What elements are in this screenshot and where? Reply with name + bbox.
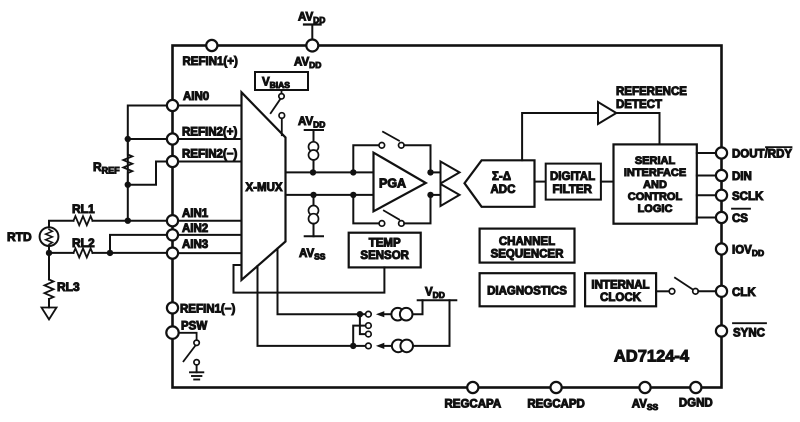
svg-text:REGCAPD: REGCAPD bbox=[527, 399, 585, 411]
svg-text:SENSOR: SENSOR bbox=[360, 250, 409, 262]
wire junction to AIN2 bbox=[110, 235, 168, 253]
wire X-MUX to IOUT top rail bbox=[278, 249, 358, 315]
svg-text:CONTROL: CONTROL bbox=[628, 191, 683, 203]
IOUT contact 4 bbox=[366, 343, 372, 349]
pin AIN1 bbox=[167, 215, 178, 226]
svg-text:INTERFACE: INTERFACE bbox=[624, 167, 686, 179]
VBIAS switch blade bbox=[271, 100, 280, 113]
wire IOUT1 to VDD bbox=[413, 300, 450, 346]
VDD bar bbox=[418, 299, 457, 301]
wire RL2 to AIN3 pin bbox=[93, 252, 168, 254]
svg-text:CLK: CLK bbox=[732, 287, 756, 299]
pin AVDD top bbox=[306, 40, 318, 52]
wire RL3 to ground bbox=[48, 299, 50, 308]
wire temp sensor to X-MUX bbox=[234, 265, 385, 293]
SERIAL INTERFACE AND CONTROL LOGIC box bbox=[614, 144, 697, 223]
current source AVDD (two circles) bbox=[309, 142, 319, 152]
VBIAS box bbox=[255, 72, 308, 90]
svg-text:DIAGNOSTICS: DIAGNOSTICS bbox=[487, 286, 567, 298]
node top bypass left bbox=[350, 169, 356, 175]
wire REFIN2(-) elbow bbox=[128, 162, 168, 185]
IOUT contact 2 bbox=[366, 323, 372, 329]
wire RTD to RL3 bbox=[48, 253, 50, 280]
node AIN1 junction bbox=[125, 218, 131, 224]
wire bottom bypass right bbox=[404, 195, 430, 224]
DIGITAL FILTER box bbox=[546, 164, 601, 200]
svg-text:SERIAL: SERIAL bbox=[635, 155, 676, 167]
resistor RL1 bbox=[74, 216, 93, 225]
svg-text:INTERNAL: INTERNAL bbox=[591, 280, 649, 292]
clock switch contact right bbox=[693, 289, 699, 295]
pin PSW bbox=[166, 326, 178, 338]
wire X-MUX to IOUT bottom rail bbox=[258, 266, 351, 346]
reference detect buffer bbox=[598, 102, 616, 124]
clock switch blade bbox=[675, 278, 693, 290]
svg-text:PSW: PSW bbox=[181, 321, 207, 333]
AVSS bar bbox=[305, 235, 323, 237]
X-MUX block bbox=[242, 92, 286, 280]
node top rail AVDD bbox=[310, 169, 316, 175]
svg-text:AIN3: AIN3 bbox=[182, 239, 208, 251]
top bypass blade bbox=[383, 132, 399, 141]
resistor RL2 bbox=[74, 248, 93, 257]
chip boundary AD7124-4 bbox=[173, 46, 722, 388]
wire detect to serial box bbox=[616, 113, 659, 144]
current source AVSS (two circles) bbox=[309, 206, 319, 216]
svg-text:AIN0: AIN0 bbox=[183, 91, 209, 103]
wire elbow top to contact 3 bbox=[360, 314, 366, 334]
svg-text:FILTER: FILTER bbox=[553, 184, 593, 196]
IOUT contact 3 bbox=[366, 331, 372, 337]
wire top bypass left riser bbox=[353, 145, 379, 172]
VBIAS switch contact top bbox=[279, 94, 284, 99]
svg-text:RTD: RTD bbox=[7, 230, 32, 244]
pin SYNC bbox=[716, 325, 727, 336]
svg-text:CLOCK: CLOCK bbox=[600, 292, 642, 304]
pin AIN2 bbox=[167, 229, 178, 240]
bottom bypass contact left bbox=[379, 221, 385, 227]
svg-text:RL2: RL2 bbox=[72, 236, 95, 250]
resistor RL3 bbox=[45, 280, 54, 300]
wire top rail to contact 1 bbox=[360, 313, 366, 315]
pin IOVDD bbox=[716, 243, 727, 254]
node RREF bottom junction bbox=[125, 182, 131, 188]
wire bottom bypass left riser bbox=[353, 195, 379, 224]
wire REFIN2(+) to X-MUX bbox=[178, 138, 241, 140]
resistor RREF bbox=[123, 139, 132, 185]
node RTD bottom junction bbox=[46, 250, 52, 256]
wire AIN0 external vertical bbox=[128, 106, 168, 221]
node RREF top junction bbox=[125, 136, 131, 142]
PSW switch blade bbox=[184, 346, 195, 361]
pin SCLK bbox=[716, 190, 727, 201]
PSW switch contact top bbox=[194, 340, 199, 345]
pin REFIN2(+) bbox=[167, 133, 178, 144]
svg-text:AVSS: AVSS bbox=[299, 248, 326, 262]
wire AIN2 to X-MUX bbox=[178, 234, 241, 236]
svg-text:CHANNEL: CHANNEL bbox=[499, 236, 555, 248]
svg-text:PGA: PGA bbox=[379, 177, 406, 191]
svg-text:AND: AND bbox=[643, 179, 667, 191]
bottom bypass contact right bbox=[399, 221, 405, 227]
svg-text:CS: CS bbox=[732, 213, 748, 225]
wire serial to DIN bbox=[697, 175, 716, 177]
svg-text:DOUT/RDY: DOUT/RDY bbox=[732, 149, 792, 161]
wire ADC to digital filter bbox=[535, 181, 546, 183]
wire RTD bottom to RL2 bbox=[49, 246, 74, 253]
buffer bottom bbox=[441, 184, 460, 206]
pin DOUT/RDY bbox=[716, 147, 727, 158]
AVDD supply stem bbox=[311, 25, 313, 40]
PSW switch contact bottom bbox=[194, 360, 199, 365]
svg-text:DETECT: DETECT bbox=[616, 99, 662, 111]
sigma-delta ADC block bbox=[465, 160, 535, 207]
svg-text:AIN2: AIN2 bbox=[182, 223, 208, 235]
svg-text:REFIN1(+): REFIN1(+) bbox=[183, 56, 238, 68]
wire AIN1 to X-MUX bbox=[178, 220, 241, 222]
wire top rail X-MUX to PGA bbox=[286, 171, 373, 173]
VBIAS switch contact bottom bbox=[279, 113, 285, 119]
svg-text:ADC: ADC bbox=[491, 184, 516, 196]
svg-text:LOGIC: LOGIC bbox=[638, 203, 673, 215]
INTERNAL CLOCK box bbox=[585, 273, 656, 306]
wire AIN3 to X-MUX bbox=[178, 252, 241, 254]
node top bypass right bbox=[427, 169, 433, 175]
wire serial to CS bbox=[697, 217, 716, 219]
svg-text:DGND: DGND bbox=[679, 398, 713, 410]
svg-text:RREF: RREF bbox=[93, 160, 120, 176]
op-amp PGA bbox=[374, 153, 426, 212]
wire ADC to reference detect bbox=[522, 113, 598, 160]
PSW switch wire bbox=[179, 333, 197, 340]
svg-text:Σ-Δ: Σ-Δ bbox=[492, 171, 511, 183]
AVDD source bar bbox=[305, 129, 323, 131]
DIAGNOSTICS box bbox=[480, 273, 575, 306]
pin AIN3 bbox=[167, 248, 178, 259]
pin REFIN2(-) bbox=[167, 156, 178, 167]
bottom bypass blade bbox=[384, 211, 399, 220]
node bottom bypass left bbox=[350, 192, 356, 198]
svg-text:AVDD: AVDD bbox=[298, 12, 325, 26]
current source IOUT1 (two circles) bbox=[392, 340, 405, 353]
ground symbol under PSW switch bbox=[190, 365, 203, 380]
wire source to top rail bbox=[313, 160, 315, 172]
wire VBIAS switch to X-MUX bbox=[281, 118, 283, 135]
svg-text:AVSS: AVSS bbox=[632, 399, 659, 413]
wire serial to DOUT bbox=[697, 152, 716, 154]
pin REGCAPA bbox=[467, 382, 478, 393]
wire bar to source bbox=[313, 130, 315, 142]
top bypass contact right bbox=[399, 143, 405, 149]
svg-text:RL1: RL1 bbox=[72, 202, 95, 216]
node AIN2 branch junction bbox=[107, 250, 113, 256]
clock switch contact left bbox=[669, 289, 675, 295]
pin AVSS bbox=[639, 382, 650, 393]
pin CLK bbox=[716, 286, 727, 297]
svg-text:DIN: DIN bbox=[732, 171, 752, 183]
node IOUT top bbox=[357, 311, 363, 317]
svg-text:REFIN1(−): REFIN1(−) bbox=[180, 304, 235, 316]
RTD sensor bbox=[40, 227, 59, 246]
wire top bypass right bbox=[404, 145, 430, 172]
svg-text:SEQUENCER: SEQUENCER bbox=[491, 249, 565, 261]
pin DGND bbox=[690, 382, 701, 393]
svg-text:VDD: VDD bbox=[425, 287, 445, 301]
wire PGA out top bbox=[431, 171, 441, 173]
ground arrow under RL3 bbox=[42, 308, 57, 320]
pin REFIN1(+) on top border bbox=[206, 40, 217, 51]
TEMP SENSOR box bbox=[349, 233, 421, 268]
svg-text:IOVDD: IOVDD bbox=[732, 245, 764, 259]
svg-text:RL3: RL3 bbox=[57, 280, 80, 294]
arrow current source top bbox=[376, 311, 384, 317]
wire internal clock to switch bbox=[656, 290, 669, 292]
wire bottom rail X-MUX to PGA bbox=[286, 194, 373, 196]
svg-text:AD7124-4: AD7124-4 bbox=[614, 348, 690, 366]
current source IOUT0 (two circles) bbox=[391, 308, 404, 321]
svg-text:AVDD: AVDD bbox=[298, 116, 325, 130]
wire AIN0 to X-MUX bbox=[178, 105, 241, 107]
svg-text:REFIN2(+): REFIN2(+) bbox=[182, 127, 237, 139]
svg-text:DIGITAL: DIGITAL bbox=[550, 171, 595, 183]
wire serial to SCLK bbox=[697, 194, 716, 196]
CHANNEL SEQUENCER box bbox=[480, 229, 575, 263]
node bottom rail AVSS bbox=[310, 192, 316, 198]
buffer top bbox=[441, 162, 460, 184]
svg-text:REFIN2(−): REFIN2(−) bbox=[182, 149, 237, 161]
svg-text:REFERENCE: REFERENCE bbox=[616, 86, 687, 98]
arrow current source bottom bbox=[376, 343, 384, 349]
wire RL1 to AIN1 pin bbox=[93, 220, 168, 222]
wire REFIN2(+) stub bbox=[128, 138, 168, 140]
top bypass contact left bbox=[379, 143, 385, 149]
IOUT contact 1 bbox=[366, 311, 372, 317]
pin CS bbox=[716, 212, 727, 223]
node IOUT bottom bbox=[350, 343, 356, 349]
wire elbow bottom to contact 2 bbox=[353, 326, 365, 346]
wire PGA out bottom bbox=[431, 194, 441, 196]
svg-text:X-MUX: X-MUX bbox=[246, 182, 283, 194]
wire REFIN2(-) to X-MUX bbox=[178, 161, 241, 163]
pin REGCAPD bbox=[551, 382, 562, 393]
svg-text:SCLK: SCLK bbox=[732, 191, 764, 203]
svg-text:REGCAPA: REGCAPA bbox=[444, 399, 501, 411]
pin AIN0 bbox=[167, 100, 178, 111]
svg-text:TEMP: TEMP bbox=[369, 238, 401, 250]
wire bottom rail to AVSS source bbox=[313, 195, 315, 206]
pin DIN bbox=[716, 170, 727, 181]
wire bottom rail to contact 4 bbox=[353, 345, 365, 347]
wire AVSS source to bar bbox=[313, 224, 315, 237]
wire switch to CLK pin bbox=[698, 290, 716, 292]
wire filter to serial bbox=[601, 181, 614, 183]
svg-text:SYNC: SYNC bbox=[733, 328, 765, 340]
node bottom bypass right bbox=[427, 192, 433, 198]
svg-text:AVDD: AVDD bbox=[294, 57, 321, 71]
VBIAS switch wire bbox=[281, 90, 283, 94]
pin REFIN1(-) bbox=[167, 302, 178, 313]
svg-text:AIN1: AIN1 bbox=[182, 208, 209, 220]
wire RTD top to RL1 bbox=[49, 221, 74, 228]
wire IOUT0 to VDD bbox=[413, 300, 423, 314]
